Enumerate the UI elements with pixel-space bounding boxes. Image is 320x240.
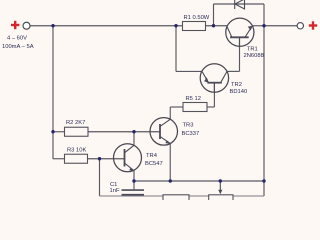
svg-text:C1: C1 [110, 182, 117, 188]
svg-text:TR4: TR4 [146, 153, 158, 159]
svg-text:2N6088: 2N6088 [244, 53, 264, 59]
svg-text:R5 12: R5 12 [186, 96, 201, 102]
svg-text:100mA – 5A: 100mA – 5A [2, 44, 34, 50]
svg-text:R3 10K: R3 10K [67, 147, 86, 153]
svg-text:TR3: TR3 [183, 123, 194, 129]
svg-text:R1 0.50W: R1 0.50W [184, 15, 210, 21]
svg-text:R2 2K7: R2 2K7 [66, 120, 85, 126]
svg-text:4 – 60V: 4 – 60V [7, 36, 27, 42]
svg-text:TR1: TR1 [247, 47, 258, 53]
svg-text:TR2: TR2 [231, 82, 242, 88]
svg-text:BD140: BD140 [230, 89, 248, 95]
svg-text:BC337: BC337 [182, 131, 200, 137]
svg-text:BC547: BC547 [145, 161, 163, 167]
svg-text:1nF: 1nF [110, 188, 120, 194]
